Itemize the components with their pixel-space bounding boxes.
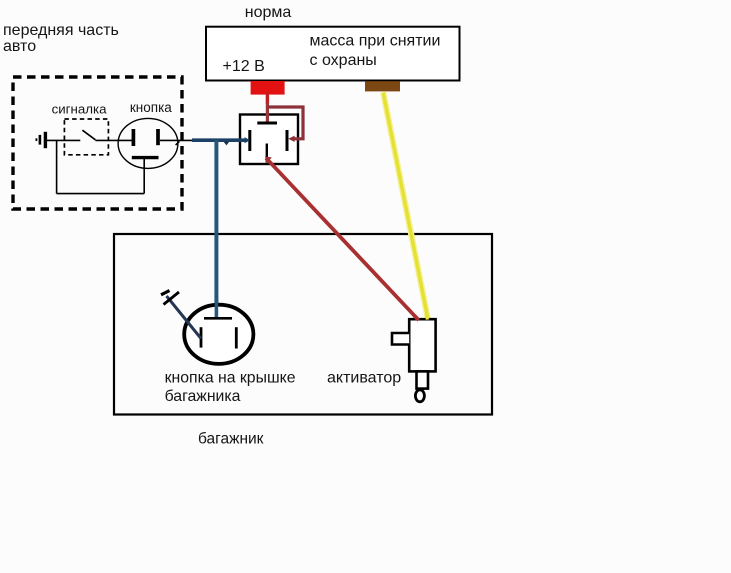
wire: ground to switch: [47, 139, 80, 141]
label "кнопка на крышке багажника": [165, 370, 296, 406]
button bottom contact bar: [132, 156, 159, 159]
+12V terminal (red pad): [251, 81, 285, 95]
red wire: relay output to actuator: [265, 156, 419, 320]
label "масса при снятии с охраны": [310, 33, 441, 69]
return loop wire (button bottom to main wire): [57, 140, 145, 193]
svg-text:+12 В: +12 В: [223, 58, 265, 75]
label "+12 В": [223, 58, 265, 75]
relay coil bar (pin 86): [257, 122, 277, 125]
front-of-car dashed enclosure: [13, 77, 182, 209]
label "активатор": [327, 369, 401, 386]
trunk enclosure box: [114, 234, 492, 415]
button pin right: [156, 129, 160, 145]
actuator body: [409, 319, 435, 371]
actuator eyelet: [415, 390, 424, 402]
yellow wire: ground terminal to actuator: [383, 93, 428, 319]
label "норма": [245, 4, 292, 21]
svg-text:авто: авто: [3, 38, 36, 55]
relay pin bottom (30): [266, 144, 268, 163]
svg-text:багажника: багажника: [165, 388, 241, 405]
blue wire: down to trunk button: [214, 140, 218, 318]
junction nub on blue wire: [224, 142, 230, 146]
svg-text:кнопка: кнопка: [130, 100, 172, 115]
trunk button circle: [184, 305, 253, 364]
blue wire tail into trunk button: [215, 296, 219, 318]
svg-text:масса при снятии: масса при снятии: [310, 33, 441, 50]
wire tips entering actuator: [414, 313, 427, 320]
red wire: +12V to relay coil: [266, 93, 269, 122]
alarm output block (норма box): [206, 27, 460, 81]
svg-text:багажник: багажник: [198, 431, 264, 448]
relay pin left (85): [248, 130, 251, 151]
junction cross at button right: [176, 141, 180, 145]
svg-text:активатор: активатор: [327, 369, 401, 386]
svg-text:кнопка на крышке: кнопка на крышке: [165, 370, 296, 387]
label "багажник": [198, 431, 264, 448]
ground stub (left wire end): [36, 132, 45, 148]
switch contact arm: [82, 130, 95, 140]
trunk button pin right: [235, 327, 238, 348]
blue wire: button to relay (horizontal): [192, 137, 250, 143]
wire: switch to button: [95, 139, 133, 141]
label "сигналка": [52, 102, 108, 117]
actuator side tab: [392, 333, 409, 345]
relay box: [240, 115, 298, 165]
blue wire: chassis to trunk button pin: [167, 296, 202, 339]
button pin left: [132, 129, 136, 146]
chassis ground slashes: [161, 291, 179, 305]
label "передняя часть авто": [3, 22, 119, 55]
svg-text:передняя часть: передняя часть: [3, 22, 119, 39]
trunk button top bar: [204, 317, 232, 320]
relay pin right (87): [286, 130, 289, 151]
ground-on-disarm terminal (brown pad): [365, 81, 400, 91]
alarm contact dashed box (сигналка): [64, 119, 108, 155]
red wire loop: +12V around to relay right pin: [267, 107, 303, 142]
front button (кнопка) circle: [118, 118, 178, 168]
svg-text:с охраны: с охраны: [310, 52, 377, 69]
trunk button pin left: [200, 327, 203, 347]
svg-text:сигналка: сигналка: [52, 102, 108, 117]
wire: through button to enclosure edge: [160, 139, 207, 141]
label "кнопка": [130, 100, 172, 115]
svg-text:норма: норма: [245, 4, 292, 21]
actuator stem: [417, 371, 429, 388]
